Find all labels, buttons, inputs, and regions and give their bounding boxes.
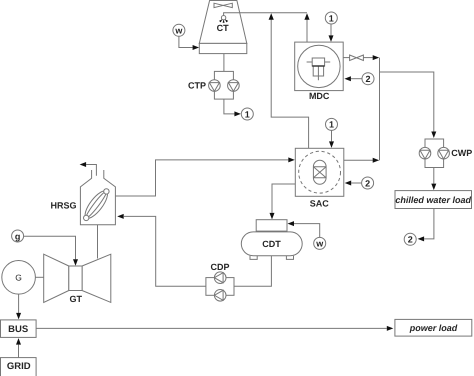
gas turbine GT turbine — [82, 254, 111, 302]
svg-text:g: g — [15, 231, 21, 241]
HRSG coil — [81, 188, 111, 222]
pump CTP-2 — [228, 80, 240, 92]
wire SAC chilled out — [344, 159, 373, 161]
arrow into CDT hatch — [270, 213, 275, 220]
wire GT exhaust to HRSG — [97, 225, 99, 259]
pump CDP-2 — [214, 290, 226, 302]
gas turbine GT combustor — [69, 266, 82, 291]
svg-text:GRID: GRID — [7, 361, 31, 372]
arrow into chilled riser — [373, 55, 380, 60]
chiller MDC box — [295, 42, 344, 91]
arrow into BUS bottom — [16, 338, 21, 345]
cooling tower CT fan — [214, 3, 232, 7]
wire chilled supply riser — [379, 58, 381, 161]
gas turbine GT compressor — [44, 254, 69, 302]
wire CDP to HRSG feedwater — [124, 216, 206, 286]
svg-text:GT: GT — [69, 294, 82, 304]
chiller SAC generator cylinder — [313, 160, 326, 184]
svg-text:BUS: BUS — [8, 324, 28, 335]
wire G to BUS — [18, 294, 20, 313]
wire w to CT basin — [179, 36, 193, 47]
wire node 2 into SAC — [351, 182, 362, 184]
wire GRID to BUS — [18, 345, 20, 358]
svg-text:G: G — [15, 273, 22, 283]
wire SAC condensate to CDT — [272, 184, 295, 213]
arrow into SAC right — [345, 181, 352, 186]
HRSG vessel — [80, 170, 115, 225]
wire condenser water return into CT sprinkler — [224, 13, 307, 16]
node 2 (chilled return, below load) — [404, 233, 416, 245]
cooling tower CT spray nozzle — [219, 16, 228, 23]
node 1 (cooling water supply, above MDC) — [325, 12, 337, 24]
arrow into MDC top — [329, 35, 334, 42]
pump CDP-1 — [214, 272, 226, 284]
wire SAC return riser — [271, 20, 308, 149]
svg-text:HRSG: HRSG — [50, 201, 76, 211]
node 2 (chilled return, at SAC) — [362, 177, 374, 189]
arrow into CDT hatch right — [288, 221, 295, 226]
svg-text:2: 2 — [365, 178, 370, 188]
arrow into node 2 — [418, 236, 425, 241]
node 1 (cooling water supply, above SAC) — [326, 118, 338, 130]
pump group CWP branch — [425, 139, 444, 168]
arrow into CT basin — [193, 45, 200, 50]
arrow into chilled riser from SAC — [373, 158, 380, 163]
arrow into node 1 — [234, 111, 241, 116]
wire steam HRSG to SAC — [115, 160, 288, 196]
arrow into HRSG right — [117, 214, 124, 219]
svg-text:w: w — [315, 239, 324, 249]
generator G shaft — [35, 276, 43, 278]
arrow exhaust to atmosphere — [80, 162, 87, 167]
generator G — [2, 261, 36, 295]
svg-text:CDT: CDT — [262, 239, 281, 249]
svg-text:SAC: SAC — [310, 198, 330, 208]
chiller SAC box — [295, 148, 344, 196]
arrow into CWP branch — [431, 132, 436, 139]
chiller SAC dashed circle — [299, 151, 341, 193]
wire valve to chilled riser — [363, 57, 372, 59]
wire node 2 into MDC — [351, 78, 362, 80]
arrow into combustor — [73, 259, 78, 266]
valve — [350, 55, 364, 61]
wire HRSG exhaust stack out — [86, 165, 96, 176]
node 1 (cooling water supply, at CTP) — [241, 108, 253, 120]
wire node 1 into SAC — [331, 130, 333, 141]
svg-text:w: w — [174, 26, 183, 36]
svg-text:2: 2 — [365, 74, 370, 84]
box power load — [395, 319, 472, 336]
node 2 (chilled return, at MDC) — [362, 73, 374, 85]
wire g to GT combustor — [24, 236, 76, 259]
pump group CTP branch — [214, 71, 233, 99]
pump group CDP branch — [206, 278, 234, 296]
tank CDT feet — [250, 256, 294, 260]
node w (makeup water to CT) — [173, 24, 185, 36]
wire MDC chilled out to valve — [343, 57, 349, 59]
node g (fuel gas) — [12, 230, 24, 242]
arrow into BUS top — [16, 313, 21, 320]
box BUS — [1, 320, 37, 338]
svg-text:chilled water load: chilled water load — [395, 195, 471, 205]
arrow into SAC top — [329, 141, 334, 148]
svg-text:1: 1 — [329, 120, 334, 130]
wire MDC return riser — [306, 20, 308, 43]
svg-text:CTP: CTP — [188, 81, 206, 91]
cooling tower CT body — [199, 1, 247, 44]
wire w to CDT — [294, 224, 320, 238]
arrow into MDC right — [344, 76, 351, 81]
wire node 1 into MDC — [330, 24, 332, 35]
pump CTP-1 — [209, 80, 221, 92]
arrow into chilled water load — [431, 184, 436, 191]
cooling tower CT basin — [199, 43, 247, 53]
wire chilled riser to CWP — [380, 72, 434, 132]
wire CT basin to CTP — [223, 54, 225, 72]
box chilled water load — [395, 191, 472, 209]
svg-text:MDC: MDC — [309, 91, 330, 101]
wire BUS to power load — [36, 327, 387, 329]
pump CWP-2 — [438, 147, 450, 159]
arrow up into CT return line (from SAC) — [269, 13, 274, 20]
svg-text:CWP: CWP — [451, 148, 472, 158]
svg-text:CT: CT — [217, 23, 229, 33]
box GRID — [1, 358, 37, 376]
tank CDT hatch — [256, 220, 287, 231]
chiller MDC compressor symbol — [298, 45, 340, 87]
pump CWP-1 — [419, 147, 431, 159]
arrow into power load — [387, 326, 394, 331]
svg-text:1: 1 — [329, 13, 334, 23]
svg-text:1: 1 — [245, 109, 250, 119]
svg-text:power load: power load — [409, 323, 458, 333]
wire CTP outlet — [224, 99, 235, 114]
arrow up into CT return line (from MDC) — [304, 13, 309, 20]
wire chilled load return — [424, 209, 434, 239]
arrow steam into SAC — [288, 157, 295, 162]
wire CWP to chilled water load — [433, 168, 435, 184]
svg-text:2: 2 — [408, 235, 413, 245]
wire CDT drain to CDP — [234, 256, 271, 287]
node w (makeup water to CDT) — [314, 237, 326, 249]
svg-text:CDP: CDP — [210, 262, 229, 272]
tank CDT body — [241, 232, 302, 256]
